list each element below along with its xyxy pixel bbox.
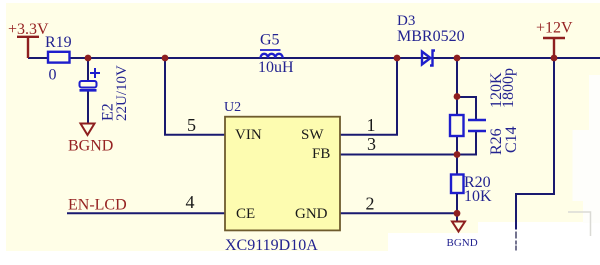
svg-text:C14: C14 xyxy=(503,126,520,153)
svg-text:2: 2 xyxy=(366,194,375,214)
svg-text:3: 3 xyxy=(367,134,376,154)
svg-text:5: 5 xyxy=(187,115,196,135)
svg-text:SW: SW xyxy=(301,127,324,143)
svg-text:FB: FB xyxy=(312,146,330,162)
svg-text:GND: GND xyxy=(295,206,328,222)
svg-text:+12V: +12V xyxy=(536,20,573,37)
svg-text:0: 0 xyxy=(49,67,57,84)
svg-text:CE: CE xyxy=(236,206,255,222)
svg-text:4: 4 xyxy=(186,192,195,212)
svg-text:D3: D3 xyxy=(397,13,415,29)
svg-text:XC9119D10A: XC9119D10A xyxy=(225,237,318,254)
svg-text:10uH: 10uH xyxy=(258,59,294,76)
svg-text:22U/10V: 22U/10V xyxy=(114,65,130,121)
svg-text:EN-LCD: EN-LCD xyxy=(68,197,127,214)
svg-text:VIN: VIN xyxy=(235,127,262,143)
svg-text:MBR0520: MBR0520 xyxy=(397,28,465,45)
svg-text:10K: 10K xyxy=(464,188,492,205)
svg-text:1800p: 1800p xyxy=(500,68,517,108)
svg-text:G5: G5 xyxy=(260,32,280,49)
svg-text:U2: U2 xyxy=(224,100,241,115)
svg-text:BGND: BGND xyxy=(447,237,478,249)
svg-text:R19: R19 xyxy=(45,34,72,51)
svg-text:1: 1 xyxy=(367,115,376,135)
svg-text:+3.3V: +3.3V xyxy=(8,21,49,38)
svg-text:BGND: BGND xyxy=(68,138,113,155)
